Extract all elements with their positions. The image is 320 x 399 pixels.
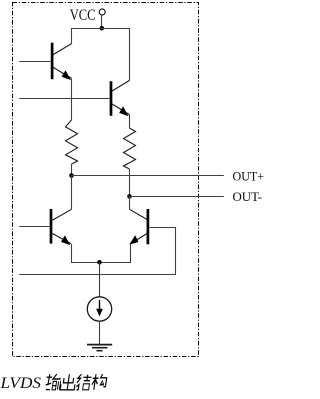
- wire Q2 emitter to R2: [129, 115, 131, 128]
- wire tail to current source: [99, 263, 101, 298]
- wire Q3 emitter to common rail: [72, 244, 131, 263]
- transistor Q2: [111, 80, 130, 116]
- node common emitter junction: [97, 260, 102, 265]
- wire current source to ground: [99, 321, 101, 345]
- transistor Q1: [52, 43, 71, 80]
- node OUT- junction: [127, 194, 132, 199]
- wire OUT- node to Q4 collector: [129, 197, 131, 210]
- node VCC rail junction: [100, 26, 105, 31]
- ground: [87, 345, 112, 351]
- svg-text:OUT+: OUT+: [233, 170, 265, 184]
- wire OUT+ node to Q3 collector: [71, 176, 73, 210]
- VCC terminal circle: [99, 9, 105, 15]
- transistor Q4: [129, 209, 148, 245]
- wire R2 to OUT- node: [129, 169, 131, 197]
- caption Chinese 输出结构 (hand drawn strokes): [45, 374, 107, 390]
- wire top supply rail: [72, 29, 130, 81]
- current source I1: [87, 297, 111, 321]
- wire Q1 emitter to R1: [71, 78, 73, 120]
- wire VCC stem: [101, 15, 103, 28]
- resistor R1: [66, 120, 78, 164]
- svg-text:LVDS: LVDS: [0, 375, 41, 392]
- char 结: [76, 374, 92, 390]
- wire OUT+ lead: [72, 175, 224, 177]
- char 输: [45, 374, 62, 390]
- wire Q3 base input: [19, 226, 49, 228]
- resistor R2: [124, 128, 136, 169]
- wire Q1 base input: [19, 61, 50, 63]
- wire OUT- lead: [130, 196, 224, 198]
- svg-text:VCC: VCC: [70, 7, 96, 25]
- wire Q2 base input: [19, 98, 109, 100]
- char 构: [91, 374, 107, 390]
- schematic boundary dash-dot frame: [13, 3, 199, 357]
- node OUT+ junction: [69, 173, 74, 178]
- char 出: [60, 374, 76, 390]
- wire R1 to OUT+ node: [71, 164, 73, 176]
- wire Q4 base loop input: [19, 228, 175, 275]
- transistor Q3: [51, 209, 72, 245]
- svg-text:OUT-: OUT-: [233, 190, 263, 204]
